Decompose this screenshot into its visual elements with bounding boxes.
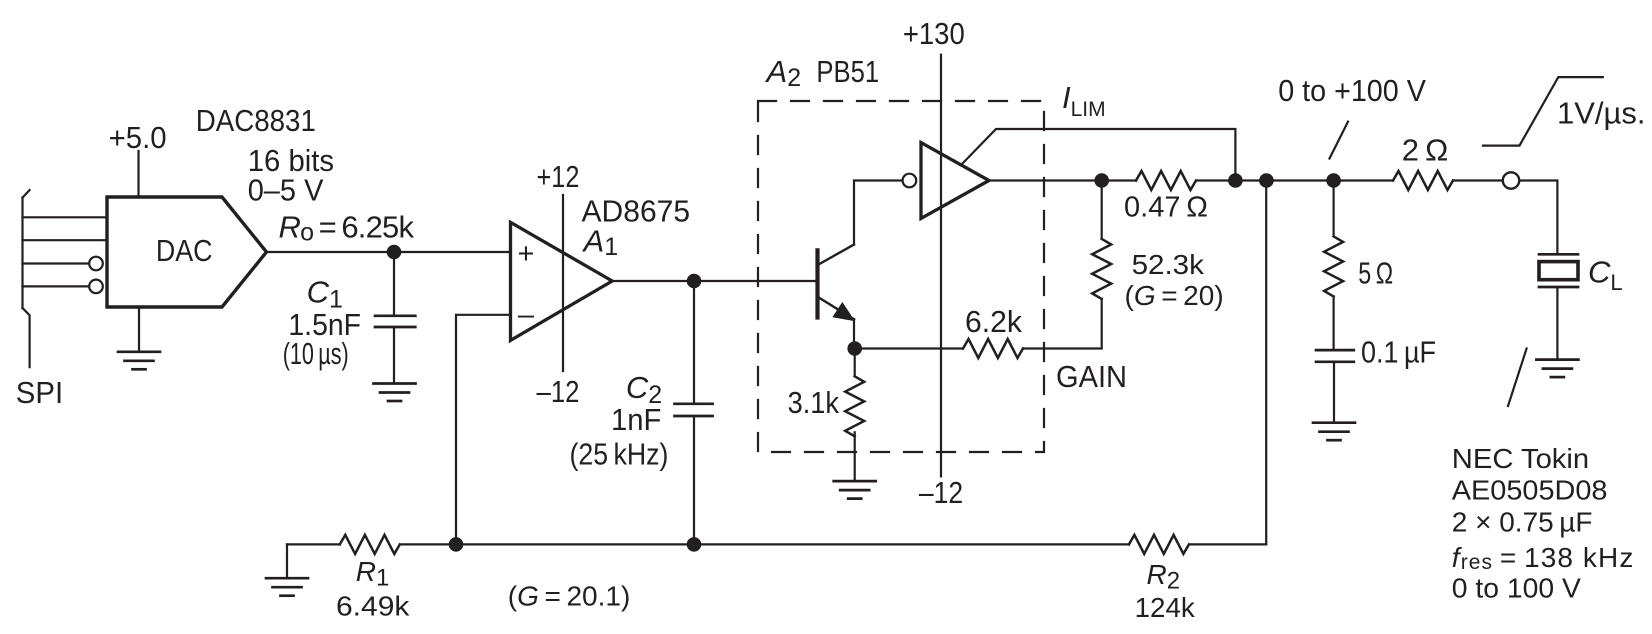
DAC inverting bubble pin 4 (89, 280, 103, 294)
C2 top lead (693, 281, 695, 404)
svg-text:+: + (518, 238, 535, 270)
Q1 collector diagonal (819, 245, 855, 265)
svg-text:0.1 µF: 0.1 µF (1361, 335, 1436, 370)
Q1 emitter arrowhead (832, 302, 855, 321)
resistor 0.47 ohm (1136, 171, 1196, 190)
Q1 emitter diagonal (819, 297, 855, 319)
svg-text:(G = 20.1): (G = 20.1) (508, 581, 631, 612)
bottom feedback rail left segment (287, 543, 340, 545)
svg-text:–12: –12 (537, 374, 580, 409)
node C2 bottom tap (687, 537, 702, 552)
wire DAC output to A1 + input (267, 251, 511, 253)
resistor 2 ohm (1393, 171, 1453, 190)
node snubber tap (1326, 173, 1341, 188)
svg-text:Ro = 6.25k: Ro = 6.25k (279, 210, 415, 247)
SPI bus vertical (21, 198, 23, 308)
rail ground lead (286, 544, 288, 578)
Q1 collector wire up and to bubble (854, 181, 902, 245)
ground C1 (374, 384, 416, 402)
svg-text:+12: +12 (537, 159, 580, 194)
resistor 6.2k (963, 339, 1023, 358)
svg-text:GAIN: GAIN (1056, 359, 1127, 394)
ground CL (1536, 360, 1578, 378)
svg-text:(10 µs): (10 µs) (283, 336, 349, 371)
node C2 tap (687, 274, 702, 289)
DAC input wire 4 (23, 285, 90, 287)
svg-text:NEC Tokin: NEC Tokin (1452, 443, 1589, 474)
svg-text:PB51: PB51 (816, 54, 879, 89)
DAC inverting bubble pin 3 (89, 257, 103, 271)
svg-text:5 Ω: 5 Ω (1358, 256, 1393, 291)
svg-text:1nF: 1nF (611, 402, 661, 437)
svg-text:6.49k: 6.49k (336, 591, 410, 622)
piezo CL bottom plate (1539, 286, 1578, 289)
SPI bus bottom jog (23, 308, 30, 367)
svg-text:–12: –12 (919, 475, 963, 510)
resistor 3.1k leads (854, 349, 856, 377)
capacitor C1 (375, 314, 415, 317)
DAC ground wire (138, 307, 140, 352)
node I_LIM tap (1228, 173, 1243, 188)
R2 feedback vertical wire (1265, 181, 1267, 545)
svg-text:6.2k: 6.2k (965, 304, 1022, 339)
resistor 5 ohm (1324, 236, 1343, 296)
wire terminal to CL (1520, 181, 1557, 255)
node emitter junction (847, 341, 862, 356)
op-amp A1 (511, 222, 613, 340)
resistor 52.3k (1092, 239, 1111, 299)
svg-text:1V/µs.: 1V/µs. (1557, 95, 1646, 130)
svg-text:AE0505D08: AE0505D08 (1452, 474, 1608, 505)
CL bottom lead (1556, 287, 1558, 360)
I_LIM wire (962, 129, 1235, 181)
wire 0.47 to 2 ohm (1198, 179, 1393, 181)
svg-text:2 × 0.75 µF: 2 × 0.75 µF (1452, 507, 1593, 538)
ground 3.1k (834, 481, 876, 499)
piezo CL body (1539, 262, 1578, 280)
svg-text:3.1k: 3.1k (788, 385, 840, 420)
capacitor 0.1uF (1316, 349, 1354, 352)
A1 inverting input wire (456, 315, 511, 545)
svg-text:124k: 124k (1135, 592, 1196, 623)
C1 top lead (393, 252, 395, 316)
svg-text:52.3k: 52.3k (1132, 249, 1205, 280)
transistor Q1 base bar (815, 250, 819, 317)
+130 supply line (940, 55, 942, 477)
bottom rail middle segment (400, 543, 1129, 545)
DAC input wire 3 (23, 262, 90, 264)
resistor 3.1k (845, 376, 864, 436)
node A1 feedback tap (449, 537, 464, 552)
svg-text:0 to +100 V: 0 to +100 V (1278, 73, 1426, 108)
svg-text:+5.0: +5.0 (109, 120, 167, 155)
DAC input wire 2 (23, 239, 108, 241)
SPI bus top tick (23, 190, 30, 198)
wire 6.2k to 52.3k bottom (1023, 299, 1102, 349)
A2 output wire (989, 179, 1136, 181)
node 52.3k top (1094, 173, 1109, 188)
svg-text:DAC: DAC (156, 233, 213, 268)
A1 supply line (562, 195, 564, 371)
+5.0 supply wire (137, 151, 139, 197)
svg-text:0–5 V: 0–5 V (248, 173, 324, 208)
5 ohm top lead (1332, 181, 1334, 237)
52.3k top lead (1101, 181, 1103, 239)
5 ohm to 0.1uF lead (1332, 296, 1334, 350)
ground DAC (118, 352, 160, 370)
annotation slash 0 to +100V (1330, 122, 1349, 159)
capacitor C2 (675, 402, 713, 405)
svg-text:2 Ω: 2 Ω (1402, 133, 1449, 168)
svg-text:0 to 100 V: 0 to 100 V (1452, 573, 1581, 604)
annotation slash NEC Tokin (1508, 349, 1527, 407)
bottom rail right segment (1190, 543, 1267, 545)
svg-text:0.47 Ω: 0.47 Ω (1124, 192, 1208, 224)
svg-text:–: – (518, 299, 535, 331)
resistor R1 (340, 535, 400, 554)
resistor R2 (1129, 535, 1189, 554)
A2 input bubble (903, 174, 917, 188)
svg-text:+130: +130 (903, 16, 965, 51)
Q1 emitter wire (853, 319, 855, 348)
ground rail (266, 578, 308, 596)
node R2 feedback tap (1259, 173, 1274, 188)
A1 output wire (612, 280, 817, 282)
svg-text:(25 kHz): (25 kHz) (570, 437, 669, 472)
DAC U1 pentagon (107, 197, 267, 307)
C2 bottom lead (693, 416, 695, 544)
slew step symbol (1483, 77, 1603, 146)
svg-text:DAC8831: DAC8831 (196, 103, 316, 138)
piezo CL top plate (1539, 253, 1578, 256)
wire 2 ohm to terminal (1453, 179, 1502, 181)
svg-text:(G = 20): (G = 20) (1125, 280, 1224, 311)
wire emitter to 6.2k (855, 347, 963, 349)
output terminal circle (1503, 172, 1519, 188)
dashed box A2 PB51 (758, 101, 1044, 452)
svg-text:SPI: SPI (16, 375, 63, 410)
0.1uF bottom lead (1333, 362, 1335, 423)
C1 bottom lead (393, 327, 395, 384)
buffer amp A2 triangle (921, 143, 989, 219)
DAC input wire 1 (23, 216, 108, 218)
node C1 tap (387, 245, 402, 260)
ground 0.1uF (1313, 423, 1355, 441)
